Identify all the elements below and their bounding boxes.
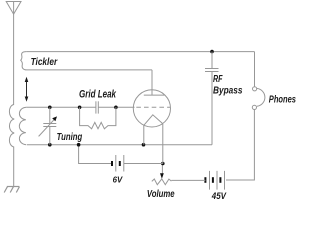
triode grid (dashed) [136, 106, 170, 108]
wire phones to battery B2 [226, 110, 254, 181]
filament right leg [162, 124, 164, 164]
svg-text:45V: 45V [211, 191, 227, 201]
node: grid leak left [78, 106, 82, 110]
svg-text:6V: 6V [113, 175, 124, 185]
wire top right corner down to phones [254, 52, 256, 87]
svg-text:Phones: Phones [269, 95, 297, 106]
triode plate [144, 94, 165, 96]
ground [4, 187, 19, 193]
svg-text:Bypass: Bypass [213, 85, 243, 96]
wire coil to ground [13, 147, 15, 187]
tickler coil bubble [21, 52, 255, 70]
coupling arrow (variable coupling) [26, 81, 28, 99]
wire battery to volume pot [171, 179, 205, 181]
wire [98, 106, 134, 108]
filament left leg wire [143, 125, 145, 144]
wiper arrow [161, 164, 163, 175]
antenna coil L1 [9, 105, 14, 148]
grid leak resistor R1 [80, 107, 116, 129]
svg-text:Volume: Volume [147, 189, 175, 200]
node: tuning cap bottom [48, 143, 52, 147]
battery B1 6V [112, 155, 124, 172]
svg-text:Tuning: Tuning [57, 132, 83, 143]
node: wiper / 6V / filament junction [161, 162, 165, 166]
grid leak capacitor C2 [96, 101, 98, 113]
node: grid leak right [114, 106, 118, 110]
svg-text:Grid Leak: Grid Leak [79, 88, 117, 100]
node: RF bypass tap on plate line [210, 50, 214, 54]
RF bypass capacitor C3 [205, 52, 219, 145]
phones jack [252, 87, 265, 110]
battery B2 45V [205, 171, 224, 190]
wire antenna to coil L1 [13, 14, 15, 105]
triode V1 envelope [133, 90, 170, 127]
tuning coil L2 [19, 107, 26, 144]
node: tuning cap top [48, 106, 52, 110]
node: 6V tap [77, 143, 81, 147]
tank top / grid wire [26, 106, 96, 108]
svg-text:RF: RF [213, 74, 223, 85]
B- bus wire [27, 144, 212, 146]
triode filament [144, 115, 163, 126]
svg-text:Tickler: Tickler [31, 57, 59, 68]
node: filament left leg [142, 143, 146, 147]
plate lead wire [151, 70, 153, 95]
volume potentiometer R2 [152, 179, 172, 185]
antenna [6, 2, 21, 15]
tuning capacitor C1 (variable) [39, 107, 57, 144]
6V supply wire [79, 145, 112, 164]
